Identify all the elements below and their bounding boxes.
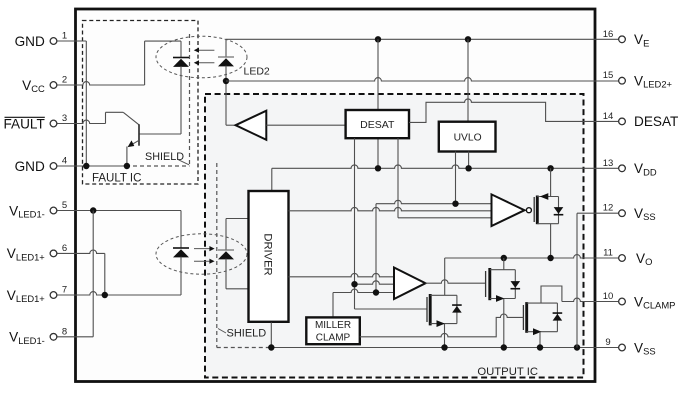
svg-text:14: 14: [603, 111, 614, 122]
svg-text:6: 6: [62, 243, 67, 254]
svg-text:DRIVER: DRIVER: [262, 233, 274, 275]
svg-text:OUTPUT IC: OUTPUT IC: [477, 366, 538, 378]
svg-text:CLAMP: CLAMP: [316, 333, 351, 344]
svg-text:13: 13: [603, 158, 614, 169]
svg-text:UVLO: UVLO: [454, 133, 482, 144]
svg-text:GND: GND: [15, 34, 45, 49]
svg-text:DESAT: DESAT: [360, 119, 395, 131]
svg-text:15: 15: [603, 70, 614, 81]
svg-text:12: 12: [603, 203, 614, 214]
svg-text:1: 1: [62, 31, 67, 42]
svg-text:5: 5: [62, 200, 67, 211]
svg-text:2: 2: [62, 75, 67, 86]
svg-text:7: 7: [62, 285, 67, 296]
svg-text:11: 11: [603, 248, 613, 259]
svg-text:DESAT: DESAT: [634, 114, 678, 129]
svg-text:9: 9: [605, 337, 610, 348]
svg-text:10: 10: [603, 291, 614, 302]
svg-text:4: 4: [62, 156, 67, 167]
svg-text:SHIELD: SHIELD: [145, 151, 184, 163]
svg-text:16: 16: [603, 29, 614, 40]
svg-text:LED2: LED2: [244, 66, 270, 78]
svg-text:SHIELD: SHIELD: [227, 327, 267, 339]
svg-text:8: 8: [62, 326, 67, 337]
svg-text:FAULT IC: FAULT IC: [92, 173, 141, 185]
svg-text:MILLER: MILLER: [315, 320, 351, 331]
svg-text:FAULT: FAULT: [4, 116, 45, 131]
svg-text:3: 3: [62, 113, 67, 124]
svg-text:GND: GND: [15, 159, 45, 174]
